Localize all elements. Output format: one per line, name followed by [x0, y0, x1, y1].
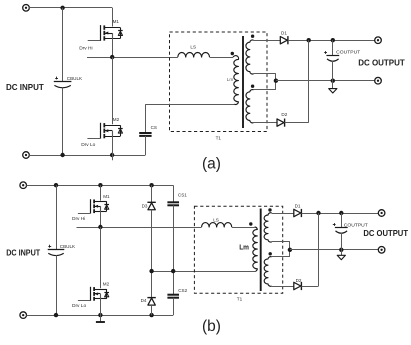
- svg-text:DC OUTPUT: DC OUTPUT: [358, 57, 405, 67]
- terminal J2+ (DC output + of circuit a): [375, 37, 382, 44]
- junction dot bottom rail / CBULK (b): [54, 313, 58, 317]
- svg-text:D1: D1: [295, 203, 301, 208]
- polarity dot primary winding (a): [231, 52, 234, 55]
- svg-text:T1: T1: [237, 296, 243, 301]
- capacitor CBULK (b): [48, 245, 65, 256]
- svg-text:Drv Hi: Drv Hi: [79, 45, 92, 51]
- ground (a output): [329, 89, 337, 93]
- secondary winding top (a): [246, 40, 254, 74]
- svg-text:Drv Lo: Drv Lo: [72, 303, 86, 309]
- transistor M1 (b): [78, 199, 109, 213]
- diode D1: [294, 209, 302, 217]
- wire CBULK bottom lead (a): [62, 88, 64, 156]
- secondary winding top (b): [264, 213, 272, 242]
- wire top winding lower end to center tap (a): [254, 73, 276, 75]
- junction dot top rail / M1 drain (b): [98, 183, 102, 187]
- polarity dot secondary top winding (b): [268, 208, 271, 211]
- wire M1 drain drop (b): [100, 185, 102, 200]
- svg-text:D2: D2: [296, 278, 302, 283]
- polarity dot secondary top winding (a): [251, 35, 254, 38]
- junction dot clamp node / CS column (b): [171, 269, 175, 273]
- wire secondary bottom to D2 (b): [272, 286, 294, 288]
- wire M2 drain from switch node (b): [100, 227, 102, 288]
- terminal J1- (DC input - of circuit a): [23, 152, 30, 159]
- wire M2 source to bottom rail (a): [112, 131, 114, 155]
- transistor M2 (b): [78, 287, 109, 301]
- capacitor COUTPUT (b): [333, 223, 348, 233]
- junction dot clamp node / D column (b): [149, 269, 153, 273]
- wire CS top lead (a): [145, 104, 147, 133]
- wire COUTPUT bottom lead (a): [332, 61, 334, 81]
- terminal J4- (DC output - of circuit b): [378, 247, 385, 254]
- secondary winding bottom (a): [246, 90, 254, 123]
- svg-text:D2: D2: [281, 112, 287, 117]
- wire top rail (b): [26, 185, 173, 187]
- wire D2 join riser (b): [318, 213, 320, 286]
- wire CBULK bottom lead (b): [56, 255, 58, 315]
- wire switch-node rail (a): [87, 57, 178, 59]
- svg-text:D4: D4: [141, 298, 147, 303]
- wire bottom winding upper end to center tap (a): [254, 89, 276, 91]
- wire top rail (a) from J1+ to M1 drain corner: [29, 7, 112, 9]
- wire bottom winding upper end to center tap (b): [272, 256, 290, 258]
- junction dot bottom rail / M2 source (a): [110, 153, 114, 157]
- wire secondary top to D1 (b): [272, 213, 294, 215]
- diode D1: [280, 36, 288, 44]
- ground (b output): [337, 255, 345, 259]
- wire LS to transformer primary (a): [210, 57, 234, 59]
- wire M1 source to switch node (a): [112, 33, 114, 57]
- svg-text:D3: D3: [142, 203, 148, 208]
- svg-text:M2: M2: [103, 281, 110, 286]
- svg-text:LS: LS: [190, 45, 196, 50]
- svg-text:DC INPUT: DC INPUT: [6, 248, 41, 258]
- svg-text:CBULK: CBULK: [60, 244, 76, 249]
- junction dot top rail / CBULK (a): [60, 6, 64, 10]
- wire primary return (a): [145, 104, 234, 106]
- inductor Lm primary winding (b): [253, 227, 258, 271]
- junction dot center tap (a): [274, 79, 278, 83]
- svg-text:M1: M1: [113, 19, 120, 24]
- svg-text:D1: D1: [281, 30, 287, 35]
- wire output return from center tap (b): [290, 249, 379, 251]
- transistor M1 (a): [88, 25, 123, 41]
- dashed boundary box transformer T1 (a): [170, 32, 268, 132]
- diode D4: [147, 298, 155, 306]
- wire ground stub below M2 (b): [100, 315, 102, 322]
- wire D1 cathode to output rail (b): [301, 213, 378, 215]
- svg-text:Lm: Lm: [227, 77, 234, 82]
- wire LS to transformer primary (b): [232, 227, 255, 229]
- diode D2: [294, 282, 302, 290]
- dashed boundary box transformer T1 (b): [194, 206, 282, 293]
- capacitor COUTPUT (a): [324, 51, 339, 61]
- svg-text:M2: M2: [113, 117, 120, 122]
- svg-text:DC OUTPUT: DC OUTPUT: [363, 228, 408, 238]
- polarity dot secondary bottom winding (a): [251, 85, 254, 88]
- inductor LS (b): [202, 223, 232, 227]
- junction dot output rail / COUTPUT (b): [339, 211, 343, 215]
- ground (b input, bar style): [96, 321, 105, 323]
- junction dot center tap (b): [288, 248, 292, 252]
- terminal J3- (DC input - of circuit b): [20, 312, 27, 319]
- junction dot switch node (a): [110, 55, 114, 59]
- wire COUTPUT top lead (b): [341, 213, 343, 227]
- secondary winding bottom (b): [264, 257, 272, 287]
- wire CS2 top lead (b): [173, 271, 175, 295]
- capacitor CS (a): [139, 133, 151, 136]
- svg-text:(a): (a): [202, 156, 221, 173]
- wire secondary top to D1 (a): [254, 40, 281, 42]
- transformer core (b): [260, 209, 262, 292]
- diode D3: [147, 202, 155, 210]
- capacitor CS1 (b): [167, 202, 179, 205]
- svg-text:COUTPUT: COUTPUT: [344, 222, 368, 227]
- wire D2 cathode to join riser (b): [301, 286, 318, 288]
- wire clamp/divider node rail (b): [152, 271, 256, 273]
- svg-text:COUTPUT: COUTPUT: [336, 49, 360, 54]
- wire bottom rail (b): [26, 315, 173, 317]
- junction dot top rail / CBULK (b): [54, 183, 58, 187]
- wire ground stub (b): [341, 250, 343, 256]
- svg-text:CBULK: CBULK: [67, 76, 83, 81]
- wire M1 source to switch node (b): [100, 206, 102, 227]
- diode D2: [277, 119, 285, 127]
- wire COUTPUT bottom lead (b): [341, 233, 343, 250]
- junction dot bottom rail / D4 (b): [149, 313, 153, 317]
- transistor M2 (a): [87, 123, 122, 139]
- junction dot D1/D2 join (a): [307, 38, 311, 42]
- svg-text:Drv Hi: Drv Hi: [72, 216, 85, 222]
- capacitor CS2 (b): [167, 295, 179, 298]
- terminal J2- (DC output - of circuit a): [375, 77, 382, 84]
- capacitor CBULK (a): [54, 77, 72, 88]
- terminal J1+ (DC input + of circuit a): [23, 5, 30, 12]
- wire D4 bottom lead (b): [151, 305, 153, 315]
- wire center-tap vertical (b): [289, 242, 291, 257]
- wire M1 drain drop (a): [112, 8, 114, 27]
- wire D1 cathode to output rail (a): [288, 40, 375, 42]
- terminal J3+ (DC input + of circuit b): [20, 182, 27, 189]
- wire secondary bottom to D2 (a): [254, 122, 278, 124]
- svg-text:CS2: CS2: [178, 288, 187, 293]
- wire CS1 top lead (b): [173, 185, 175, 202]
- junction dot switch node (b): [98, 225, 102, 229]
- junction dot top rail / D3 (b): [149, 183, 153, 187]
- wire D3 bottom lead to clamp node (b): [151, 210, 153, 271]
- svg-text:DC INPUT: DC INPUT: [6, 82, 45, 92]
- inductor Lm primary winding (a): [233, 56, 238, 105]
- svg-text:Drv Lo: Drv Lo: [81, 142, 95, 148]
- wire output return from center tap (a): [276, 80, 375, 82]
- junction dot return / COUTPUT (b): [339, 248, 343, 252]
- junction dot bottom rail / CBULK (a): [60, 153, 64, 157]
- junction dot D1/D2 join (b): [316, 211, 320, 215]
- wire D2 cathode to join riser (a): [285, 122, 309, 124]
- wire M2 source to bottom rail (b): [100, 294, 102, 315]
- wire switch-node rail (b): [77, 227, 202, 229]
- svg-text:CS: CS: [151, 125, 157, 130]
- polarity dot primary winding (b): [249, 222, 252, 225]
- wire top winding lower end to center tap (b): [272, 241, 290, 243]
- wire CBULK top lead (a): [62, 8, 64, 82]
- inductor LS (a): [178, 52, 210, 57]
- transformer core (a): [242, 36, 244, 128]
- wire CS1 bottom lead (b): [173, 205, 175, 271]
- junction dot bottom rail / M2 source (b): [98, 313, 102, 317]
- svg-text:T1: T1: [216, 135, 222, 140]
- wire COUTPUT top lead (a): [332, 40, 334, 55]
- wire M2 drain from switch node (a): [112, 57, 114, 124]
- wire CBULK top lead (b): [56, 185, 58, 249]
- wire D2 join riser (a): [308, 40, 310, 122]
- wire bottom rail (a): [29, 155, 145, 157]
- svg-text:Lm: Lm: [239, 245, 249, 252]
- wire CS bottom lead (a): [145, 136, 147, 155]
- svg-text:LS: LS: [213, 218, 219, 223]
- svg-text:M1: M1: [103, 194, 110, 199]
- wire D3 top lead (b): [151, 185, 153, 202]
- polarity dot secondary bottom winding (b): [269, 252, 272, 255]
- wire D4 top lead (b): [151, 271, 153, 298]
- wire ground stub (a): [332, 81, 334, 89]
- wire center-tap vertical (a): [275, 74, 277, 90]
- junction dot output rail / COUTPUT (a): [331, 38, 335, 42]
- svg-text:CS1: CS1: [178, 192, 187, 197]
- terminal J4+ (DC output + of circuit b): [378, 210, 385, 217]
- svg-text:(b): (b): [202, 318, 221, 335]
- wire stub below M2 source junction (a): [112, 155, 114, 160]
- wire CS2 bottom lead (b): [173, 298, 175, 315]
- junction dot return / COUTPUT (a): [331, 79, 335, 83]
